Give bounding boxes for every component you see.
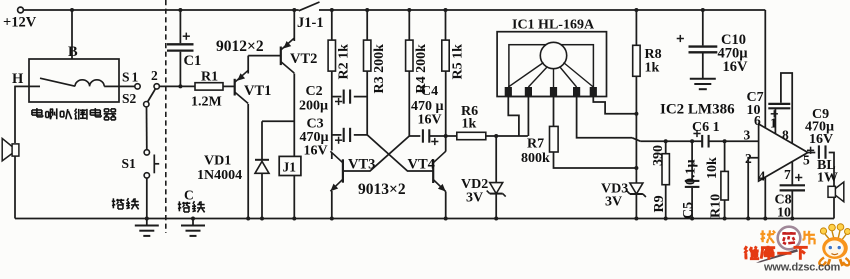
svg-text:9012×2: 9012×2 [216, 38, 264, 55]
svg-text:H: H [12, 71, 24, 87]
capacitor C8 [780, 184, 805, 186]
wire terminal 2 to R1 [159, 85, 195, 87]
svg-text:C: C [184, 188, 194, 203]
svg-text:VT2: VT2 [290, 51, 317, 67]
+12V supply terminal [18, 7, 24, 13]
svg-text:0.1µ: 0.1µ [684, 159, 699, 185]
svg-text:3V: 3V [466, 191, 483, 206]
wire B to top bus [71, 10, 73, 59]
wire node down to VT4 collector [445, 136, 447, 152]
wire R5 bottom to node [445, 71, 447, 136]
wire button to bottom bus [146, 178, 148, 219]
svg-text:10: 10 [747, 103, 761, 118]
svg-text:3V: 3V [605, 195, 622, 210]
wire top bus left segment [23, 9, 298, 11]
wire node to R6 [446, 135, 457, 137]
wire VT3 emitter to bottom bus [331, 153, 333, 160]
wire R10 to bottom bus [724, 200, 726, 219]
wire left edge down [14, 86, 16, 143]
svg-text:R10: R10 [709, 194, 724, 218]
wire IC1 pin2 down [527, 97, 529, 136]
svg-text:1: 1 [132, 70, 139, 85]
zener diode VD3 3V [630, 183, 643, 194]
svg-text:1W: 1W [817, 171, 838, 186]
ground [181, 225, 205, 227]
ground [135, 225, 159, 227]
wire R7 bottom to VD3 line [554, 152, 637, 168]
svg-text:16V: 16V [723, 59, 749, 75]
wire VT3 collector line [331, 71, 333, 150]
svg-text:1N4004: 1N4004 [197, 168, 242, 183]
capacitor C4 [422, 129, 424, 142]
capacitor C3 [343, 128, 345, 142]
wire audio line [640, 140, 701, 142]
wire VT2 emitter to top bus [293, 10, 295, 41]
svg-text:16V: 16V [304, 144, 328, 159]
IC1 fan leads [508, 63, 543, 88]
capacitor C2 [343, 90, 345, 104]
wire C3 right stub [354, 134, 367, 136]
wire C7 jog to pin8 [781, 73, 792, 143]
selector blade 2 to S2 [148, 89, 156, 102]
svg-text:R3 200k: R3 200k [372, 44, 387, 94]
watermark logo dzsc [745, 224, 850, 266]
wire R1 to VT1 base [223, 85, 235, 87]
svg-text:www.dzsc.com: www.dzsc.com [763, 262, 840, 274]
wire S2 down to button [146, 107, 148, 150]
wire R8 down to VD3 [635, 76, 637, 183]
wire C10 to ground [702, 53, 704, 78]
label 搭铁 C [178, 201, 180, 211]
IC1 music chip box [497, 32, 606, 97]
wire pin1 stub [774, 108, 776, 134]
capacitor C9 [818, 145, 820, 158]
switch J1-1 [299, 2, 320, 11]
wire C5 branch [691, 141, 693, 180]
relay switch contact [29, 85, 40, 87]
wire cross coupling R4 node to VT3 base [343, 136, 409, 171]
transistor VT1 9012 PNP [234, 79, 236, 96]
wire IC1 pin3 to R7 [553, 97, 555, 126]
svg-text:16V: 16V [418, 113, 442, 128]
label 搭铁 left [112, 198, 114, 208]
wire C8 to bottom bus [791, 190, 793, 218]
relay switch blade [40, 78, 75, 86]
capacitor C7 [768, 103, 790, 105]
wire coil to box edge [104, 85, 119, 87]
wire R4 bottom line [408, 71, 410, 136]
wire VD2 branch [495, 136, 497, 183]
wire C10 to top bus [702, 10, 704, 45]
transistor VT2 9012 PNP [280, 47, 282, 66]
wire VD1 to bottom bus [261, 173, 263, 218]
capacitor C6 [701, 135, 703, 148]
wire IC1 pin4 down [577, 97, 633, 138]
ground symbol C [192, 219, 194, 226]
svg-text:5: 5 [803, 153, 810, 168]
terminal 2 [154, 84, 159, 89]
svg-text:10: 10 [777, 206, 791, 221]
svg-text:S: S [122, 70, 130, 85]
capacitor C1 [167, 43, 194, 45]
svg-text:1.2M: 1.2M [191, 95, 222, 110]
resistor R6 body [457, 132, 486, 139]
wire top bus right segment [319, 9, 765, 11]
svg-text:+12V: +12V [3, 15, 37, 31]
resistor R7 800k [550, 126, 559, 152]
wire resistor R4 to top bus [408, 10, 410, 40]
bottom bus [15, 218, 834, 220]
wire R9 branch [665, 141, 667, 154]
wire R6 right [486, 135, 528, 137]
wire VT1 collector down to bottom bus [247, 104, 249, 219]
svg-text:2: 2 [151, 68, 158, 83]
wire C6 to R10 and amp [709, 140, 759, 142]
svg-text:VT4: VT4 [408, 157, 435, 173]
wire pin2 to ground [748, 158, 758, 219]
svg-text:VT1: VT1 [244, 83, 271, 99]
svg-text:R1: R1 [201, 70, 218, 85]
transistor VT3 9013 NPN [342, 159, 344, 182]
svg-text:R2 1k: R2 1k [337, 44, 352, 80]
wire C1 down to node [179, 52, 181, 87]
speaker horn left [12, 144, 19, 156]
svg-text:C4: C4 [421, 84, 438, 99]
push button S1 [144, 150, 149, 155]
wire cross coupling R3 node to VT4 base [367, 135, 433, 171]
speaker BL [828, 186, 835, 197]
resistor R4 body [406, 40, 413, 71]
svg-text:8: 8 [782, 128, 789, 143]
terminal S1 [135, 84, 140, 89]
IC1 pin pads [505, 87, 512, 97]
svg-text:C5: C5 [681, 202, 696, 219]
wire C9 to speaker BL [829, 153, 834, 187]
svg-text:B: B [68, 44, 78, 60]
wire box to S1 terminal [119, 85, 135, 87]
wire VT1 emitter to VT2 base [248, 55, 281, 57]
transistor VT4 9013 NPN [432, 159, 434, 183]
zener diode VD2 3V [490, 183, 503, 194]
resistor R10 10k [721, 171, 728, 200]
resistor R8 body [633, 45, 640, 76]
wire C4 left stub [409, 135, 420, 137]
wire C5 to bottom bus [691, 188, 693, 219]
wire C4 right stub [429, 135, 446, 137]
wire C2 right stub [354, 96, 367, 98]
relay coil [75, 80, 104, 87]
wire speaker down to bottom bus [14, 156, 16, 218]
wire IC1 pin1 jog to R6 wire [508, 97, 519, 136]
svg-text:S1: S1 [122, 156, 137, 171]
wire pin4 to ground [764, 177, 766, 218]
capacitor C10 [689, 45, 718, 47]
wire pin4 jog over R8 line [632, 138, 640, 141]
wire VD3 to bottom bus [635, 194, 637, 219]
svg-text:R9: R9 [652, 195, 667, 212]
svg-text:R7: R7 [527, 137, 544, 152]
svg-text:C2: C2 [306, 84, 323, 99]
svg-text:16V: 16V [809, 132, 833, 147]
svg-text:J1: J1 [283, 160, 297, 175]
svg-text:1k: 1k [462, 117, 477, 132]
svg-text:R5 1k: R5 1k [451, 44, 466, 80]
diode VD1 1N4004 [255, 159, 269, 161]
svg-text:C1: C1 [184, 53, 202, 69]
resistor R3 body [364, 40, 371, 71]
terminal S2 [144, 102, 149, 107]
resistor R1 body [195, 83, 223, 90]
svg-text:800k: 800k [521, 151, 550, 166]
wire pin6 supply from top bus [764, 10, 766, 128]
wire resistor R3 to top bus [366, 10, 368, 40]
capacitor C5 0.1u [685, 180, 700, 182]
svg-text:10k: 10k [705, 157, 720, 179]
wire H to left edge [15, 85, 29, 87]
svg-text:IC1 HL-169A: IC1 HL-169A [512, 18, 595, 33]
wire IC1 pin5 jog [593, 97, 636, 114]
svg-text:7: 7 [784, 167, 791, 182]
dashed partition line [165, 0, 167, 233]
wire VT2 collector down to J1 coil [293, 74, 295, 157]
svg-text:390: 390 [651, 145, 666, 166]
wire branch to VD1 [262, 120, 294, 122]
wire C3 left stub [332, 134, 342, 136]
label relay chinese 电喇叭继电器 [36, 108, 38, 117]
wire output to C9 [808, 152, 815, 154]
resistor R9 390 [662, 154, 669, 185]
wire VT1 emitter up [247, 56, 249, 74]
resistor R5 body [442, 40, 449, 71]
svg-text:J1-1: J1-1 [297, 15, 324, 31]
relay horn box [29, 59, 119, 102]
svg-text:VD1: VD1 [204, 154, 231, 169]
wire J1 to bottom bus [293, 176, 295, 219]
svg-text:IC2 LM386: IC2 LM386 [660, 102, 735, 118]
ground under C10 [690, 78, 716, 80]
svg-text:3: 3 [744, 128, 751, 143]
wire pin7 to C8 [791, 162, 793, 186]
wire top bus to C1 [179, 10, 181, 43]
svg-text:200µ: 200µ [299, 99, 328, 114]
wire R9 to bottom bus [665, 185, 667, 219]
op-amp IC2 LM386 triangle [759, 124, 808, 181]
svg-text:VT3: VT3 [348, 157, 375, 173]
wire speaker to bottom bus [833, 197, 835, 218]
relay coil J1 box [279, 156, 301, 175]
svg-text:S2: S2 [122, 91, 137, 106]
wire resistor R2 to top bus [331, 10, 333, 40]
svg-text:C6 1: C6 1 [692, 120, 720, 135]
svg-text:1k: 1k [645, 61, 660, 76]
wire C2 left stub [332, 96, 342, 98]
wire VD2 to bottom bus [495, 194, 497, 219]
resistor R2 body [328, 40, 335, 71]
wire resistor R5 to top bus [445, 10, 447, 40]
wire R10 branch [724, 141, 726, 171]
wire VT4 emitter to bottom bus [445, 192, 447, 219]
wire R3 bottom line [366, 71, 368, 135]
IC1 die circle [540, 42, 566, 68]
wire R8 to top bus [635, 10, 637, 45]
svg-text:9013×2: 9013×2 [358, 181, 406, 198]
ground symbol left [146, 219, 148, 226]
